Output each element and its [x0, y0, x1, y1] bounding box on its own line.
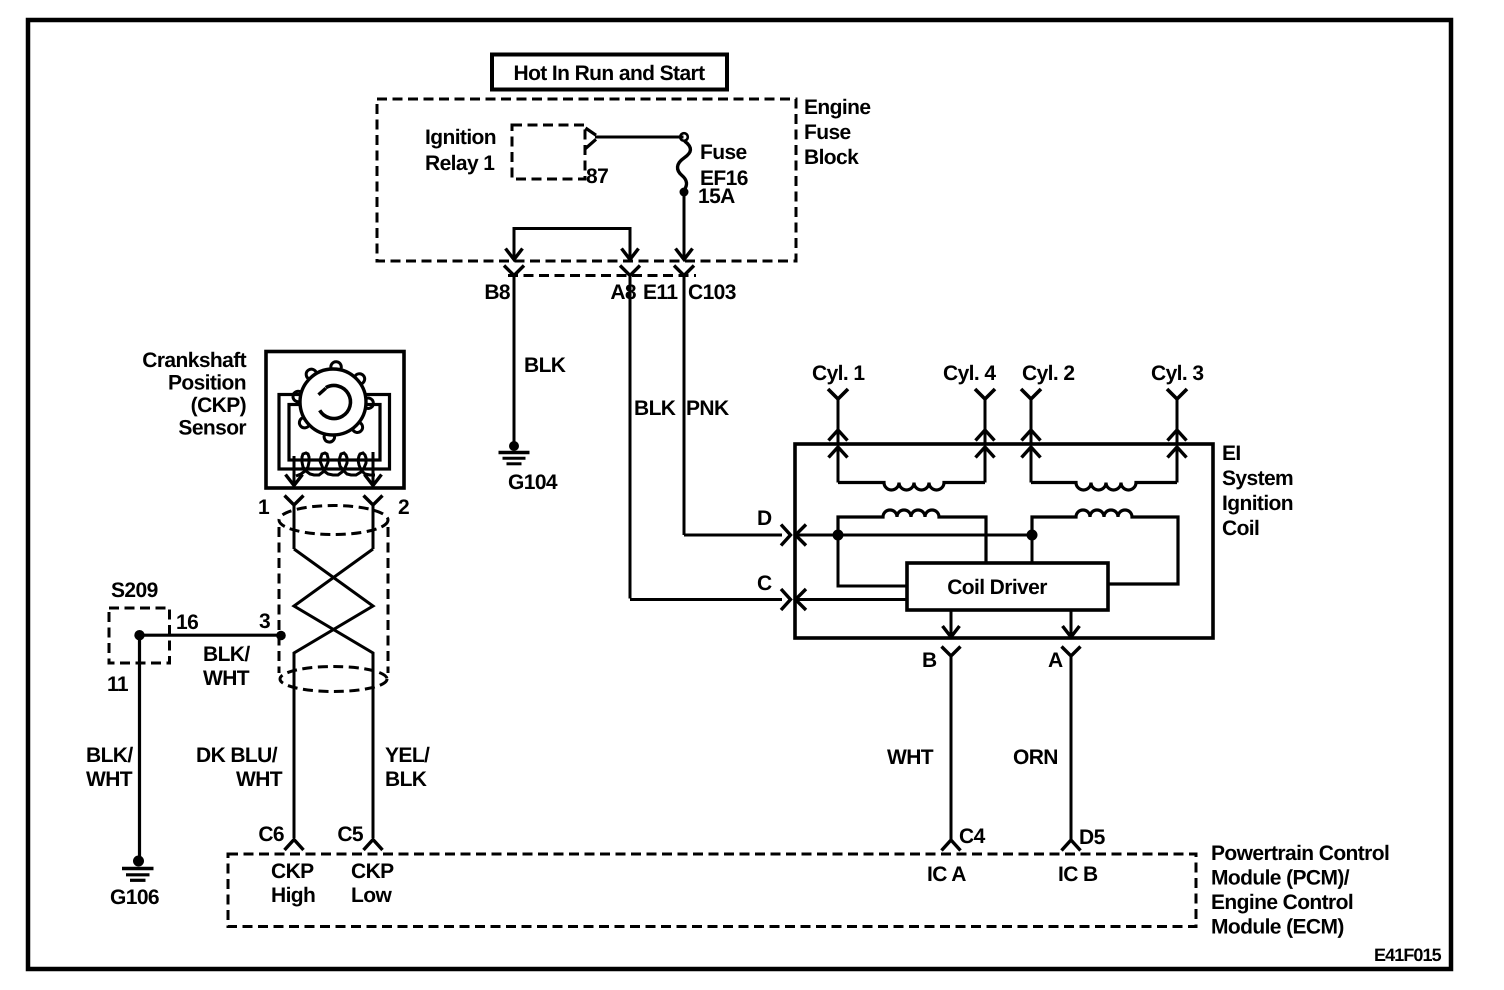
label CKP High [271, 860, 315, 907]
label BLK (A8 wire) [634, 397, 676, 420]
svg-text:Block: Block [804, 146, 859, 169]
svg-text:Engine Control: Engine Control [1211, 891, 1353, 914]
label IC B [1058, 863, 1098, 886]
CKP sensor labels [142, 349, 246, 440]
label box: Hot In Run and Start [492, 55, 727, 90]
wire fuse to E11 [683, 192, 686, 250]
svg-text:G104: G104 [508, 471, 558, 494]
label WHT [887, 746, 934, 769]
arrow into E11 [676, 248, 693, 260]
svg-text:Position: Position [168, 372, 246, 395]
svg-text:Sensor: Sensor [178, 417, 246, 440]
wire BLK label (B8 to G104) [524, 354, 566, 377]
svg-text:C103: C103 [688, 281, 736, 304]
svg-text:Module (ECM): Module (ECM) [1211, 916, 1344, 939]
svg-text:WHT: WHT [887, 746, 934, 769]
svg-text:Fuse: Fuse [700, 141, 747, 164]
connector pin D5 [1062, 826, 1106, 851]
svg-text:YEL/: YEL/ [385, 744, 430, 767]
connector pin C4 [942, 825, 986, 851]
primary winding 2-3 [1032, 510, 1178, 584]
label DK BLU/WHT [196, 744, 283, 791]
svg-text:Ignition: Ignition [425, 126, 496, 149]
svg-text:15A: 15A [698, 185, 735, 208]
ground G106 [110, 856, 159, 910]
secondary winding 1-4 [838, 483, 985, 491]
CKP pin 1 [258, 496, 304, 550]
PCM/ECM dashed box [228, 842, 1389, 939]
CKP pin 2 [364, 496, 410, 550]
svg-text:BLK/: BLK/ [203, 643, 250, 666]
svg-text:B: B [922, 649, 937, 672]
svg-text:2: 2 [398, 496, 409, 519]
svg-text:Coil Driver: Coil Driver [947, 576, 1047, 599]
svg-text:A8: A8 [610, 281, 637, 304]
connector pin A8 [610, 266, 640, 599]
svg-text:PNK: PNK [686, 397, 729, 420]
spark plug Cyl. 3 [1151, 362, 1203, 483]
svg-text:DK BLU/: DK BLU/ [196, 744, 278, 767]
svg-text:BLK: BLK [634, 397, 676, 420]
relay K: Ignition Relay 1 dashed box [425, 125, 585, 179]
svg-text:IC B: IC B [1058, 863, 1098, 886]
svg-text:E41F015: E41F015 [1374, 945, 1442, 965]
svg-text:D: D [757, 507, 772, 530]
svg-text:S209: S209 [111, 579, 158, 602]
svg-text:CKP: CKP [271, 860, 314, 883]
svg-text:C4: C4 [959, 825, 986, 848]
svg-text:Cyl. 1: Cyl. 1 [812, 362, 865, 385]
svg-text:BLK/: BLK/ [86, 744, 133, 767]
svg-text:(CKP): (CKP) [191, 394, 246, 417]
svg-text:WHT: WHT [86, 768, 133, 791]
spark plug Cyl. 2 [1021, 362, 1074, 483]
svg-text:B8: B8 [484, 281, 511, 304]
CKP reluctor wheel [293, 362, 373, 442]
svg-text:Fuse: Fuse [804, 121, 851, 144]
pin B [922, 647, 961, 841]
svg-text:C6: C6 [258, 823, 284, 846]
coil driver output A [1063, 610, 1080, 637]
wire relay 87 to fuse [595, 136, 684, 139]
svg-text:16: 16 [176, 611, 198, 634]
svg-text:Cyl. 3: Cyl. 3 [1151, 362, 1203, 385]
wire S209 to shield (pin 16 to 3) [140, 610, 286, 690]
label IC A [927, 863, 966, 886]
svg-text:WHT: WHT [236, 768, 283, 791]
CKP sensor box [266, 352, 404, 489]
primary winding 1-4 [838, 510, 986, 563]
pin A [1048, 647, 1081, 841]
svg-text:IC A: IC A [927, 863, 966, 886]
CKP pickup coil [286, 452, 382, 486]
svg-text:C: C [757, 572, 772, 595]
arrow into A8 [622, 248, 639, 260]
Coil Driver box [907, 563, 1108, 610]
svg-text:Relay 1: Relay 1 [425, 152, 495, 175]
coil driver output B [943, 610, 960, 637]
svg-text:Cyl. 4: Cyl. 4 [943, 362, 996, 385]
svg-text:System: System [1222, 467, 1293, 490]
svg-text:BLK: BLK [385, 768, 427, 791]
relay contact 87 [586, 128, 609, 188]
label YEL/BLK [385, 744, 430, 791]
fuse EF16 15A [678, 133, 748, 208]
svg-text:D5: D5 [1079, 826, 1106, 849]
label CKP Low [351, 860, 394, 907]
svg-text:E11: E11 [643, 281, 678, 304]
svg-text:WHT: WHT [203, 667, 250, 690]
wire bus B8-A8 [514, 229, 630, 251]
svg-text:87: 87 [586, 165, 608, 188]
svg-text:ORN: ORN [1013, 746, 1058, 769]
connector C103 second dashed line [508, 274, 696, 277]
connector pin E11 / C103 [643, 266, 736, 536]
svg-text:Ignition: Ignition [1222, 492, 1293, 515]
svg-text:Cyl. 2: Cyl. 2 [1022, 362, 1074, 385]
splice S209 [109, 579, 170, 663]
wire S209 pin 11 to G106 [86, 635, 140, 860]
Engine Fuse Block dashed box [377, 96, 870, 261]
svg-text:3: 3 [259, 610, 270, 633]
twisted pair shield (dashed) [279, 506, 388, 692]
node D wire inside box [795, 530, 1038, 587]
label PNK (E11 wire) [686, 397, 729, 420]
EI System Ignition Coil box [795, 442, 1293, 638]
svg-text:Hot In Run and Start: Hot In Run and Start [514, 62, 706, 85]
svg-text:Low: Low [351, 884, 392, 907]
connector pin C6 [258, 823, 303, 850]
svg-text:A: A [1048, 649, 1063, 672]
svg-text:Powertrain Control: Powertrain Control [1211, 842, 1389, 865]
secondary winding 2-3 [1031, 483, 1177, 491]
svg-text:BLK: BLK [524, 354, 566, 377]
spark plug Cyl. 1 [812, 362, 865, 483]
twisted pair wires [294, 549, 373, 838]
figure number E41F015 [1374, 945, 1442, 965]
connector pin B8 [484, 266, 524, 447]
svg-text:Engine: Engine [804, 96, 870, 119]
label ORN [1013, 746, 1058, 769]
wire C into coil driver [795, 598, 907, 601]
svg-text:High: High [271, 884, 315, 907]
svg-text:C5: C5 [337, 823, 364, 846]
svg-text:1: 1 [258, 496, 270, 519]
wire BLK A8 to C (horizontal) [630, 598, 782, 601]
arrow into B8 [506, 248, 523, 260]
ground G104 [499, 441, 558, 494]
connector pin C5 [337, 823, 382, 850]
svg-text:G106: G106 [110, 886, 159, 909]
svg-text:CKP: CKP [351, 860, 394, 883]
connector D [757, 507, 806, 546]
wire PNK E11 to D (horizontal) [684, 534, 782, 537]
connector C [757, 572, 806, 610]
spark plug Cyl. 4 [943, 362, 996, 483]
svg-text:Crankshaft: Crankshaft [142, 349, 246, 372]
svg-text:11: 11 [107, 673, 129, 696]
svg-text:Coil: Coil [1222, 517, 1259, 540]
svg-text:EI: EI [1222, 442, 1241, 465]
svg-text:Module (PCM)/: Module (PCM)/ [1211, 867, 1350, 890]
